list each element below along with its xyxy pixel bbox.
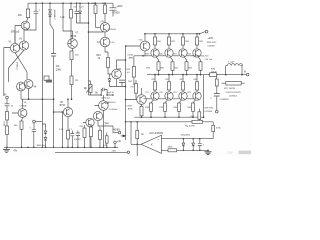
svg-text:(2W): (2W) [56, 69, 61, 71]
potentiometer Rp 5k [89, 85, 92, 93]
resistor R36 10/1W parallel [210, 73, 217, 77]
wire top base bus [134, 55, 194, 57]
transistor V3 [19, 41, 28, 50]
transistor V24 [193, 49, 201, 57]
svg-text:R37: R37 [191, 116, 194, 118]
diode clamp 2 [192, 139, 195, 151]
transistor V23 [193, 92, 201, 100]
svg-text:DIY: DIY [228, 151, 234, 155]
resistor R15 1k [105, 47, 108, 58]
resistor R33 [182, 74, 184, 76]
svg-text:3,3/25V: 3,3/25V [74, 139, 82, 141]
transistor V12 [93, 111, 102, 120]
svg-text:B716: B716 [71, 36, 77, 38]
svg-text:R15: R15 [96, 55, 101, 57]
svg-text:C2120a3: C2120a3 [109, 109, 118, 111]
capacitor 1 (op-amp) [199, 139, 201, 144]
svg-text:6.8/3W: 6.8/3W [208, 46, 216, 48]
zener 5.1V [79, 3, 81, 9]
capacitor 1u 6.3 [101, 88, 104, 95]
resistor R31 [168, 74, 170, 76]
wire x=53.6 with series capacitor [53, 30, 55, 54]
terminal Zobel [216, 110, 219, 113]
resistor 470k [212, 125, 215, 131]
resistor 560 [20, 121, 23, 129]
transistor V4 [17, 82, 26, 91]
svg-text:BT81x3: BT81x3 [11, 31, 20, 34]
resistor R32 [185, 57, 187, 62]
svg-text:0.056/63V: 0.056/63V [220, 99, 230, 101]
wire ground rail bottom [4, 146, 118, 148]
wire -46V bank rail [135, 116, 204, 118]
transistor V14 [99, 101, 109, 111]
resistor 620 (lower) [84, 125, 86, 128]
wire crossing diagonals [9, 50, 28, 82]
transistor V5 [24, 80, 33, 89]
capacitor 47/63V +46V node [112, 3, 114, 8]
diode clamp 1 [182, 139, 185, 151]
ground op-amp [207, 149, 209, 151]
resistor R18 [133, 56, 135, 67]
wire -46V line [55, 151, 127, 153]
svg-text:Ry 1k/2W: Ry 1k/2W [185, 126, 195, 128]
resistor R26 [196, 33, 198, 35]
node box 1k2 [44, 76, 49, 80]
ground symbol left [6, 147, 8, 149]
svg-text:A1943x4: A1943x4 [230, 94, 237, 97]
svg-text:1N4148x2: 1N4148x2 [53, 10, 55, 21]
svg-text:1/2 LF353N: 1/2 LF353N [149, 131, 163, 135]
transistor V22 [179, 49, 187, 57]
svg-text:IN: IN [4, 93, 7, 96]
transistor V17 driver [137, 95, 147, 105]
capacitor 1 (x=36) [35, 3, 37, 11]
resistor 1k (V11) [104, 3, 106, 5]
resistor 2 (lower) [99, 127, 101, 131]
svg-text:10/1W: 10/1W [211, 72, 217, 74]
transistor V16 driver [140, 41, 150, 51]
wire lower pair emitters [21, 88, 54, 99]
transistor V17 [151, 92, 159, 100]
resistor R20 [154, 33, 156, 35]
svg-text:1N4148x2: 1N4148x2 [181, 135, 191, 137]
resistor R17 10/2W [226, 81, 241, 85]
resistor 20k (lower) [90, 124, 92, 127]
terminal +40V [205, 30, 208, 33]
resistor 430k [168, 149, 177, 152]
wire right bus x=125.5 [125, 46, 127, 140]
wire inverting line [161, 149, 168, 151]
svg-text:B716: B716 [60, 105, 66, 107]
svg-text:R29~R35: R29~R35 [204, 108, 214, 110]
svg-text:R20~R27: R20~R27 [207, 42, 217, 44]
resistor R28 [157, 57, 159, 62]
resistor 1k op-amp [136, 130, 139, 138]
resistor R29 [154, 74, 156, 76]
svg-text:C20 1nF: C20 1nF [205, 59, 213, 61]
svg-text:+46V: +46V [117, 5, 123, 8]
resistor R35 [196, 74, 198, 76]
inductor L 1uH [226, 66, 242, 75]
svg-text:0.25/3W: 0.25/3W [204, 111, 212, 113]
resistor R30 [171, 57, 173, 62]
wire bottom base bus [144, 98, 194, 100]
resistor 1,2k (lower) [67, 131, 70, 140]
svg-text:5.1V: 5.1V [79, 6, 84, 8]
svg-text:16V(C)x2: 16V(C)x2 [101, 97, 111, 99]
resistor 220 [72, 48, 73, 51]
capacitor 10u input [6, 99, 8, 104]
wire op-amp output [136, 143, 138, 145]
resistor 100k [6, 120, 8, 126]
transistor V1 [10, 43, 19, 52]
transistor V6 [18, 109, 27, 118]
svg-text:47/63V: 47/63V [113, 13, 121, 15]
wire V7 collector [63, 3, 73, 39]
resistor R34 [179, 100, 182, 103]
wire top +46V rail [28, 2, 113, 4]
svg-text:-46V: -46V [112, 150, 117, 152]
transistor V20 [165, 49, 173, 57]
terminal (0) mid-left [33, 120, 36, 123]
diodes 1N4148x2 (bottom-left) [42, 124, 45, 129]
transistor V10 [86, 118, 94, 126]
transistor V18 [151, 49, 159, 57]
svg-text:M: M [244, 71, 246, 74]
svg-text:C735A: C735A [20, 105, 27, 108]
transistor V13 [100, 37, 110, 47]
zener bias [109, 74, 111, 77]
capacitor 3,3/25V [76, 133, 80, 136]
svg-text:D786x2: D786x2 [16, 62, 18, 70]
svg-text:+40V: +40V [208, 37, 214, 40]
svg-text:1µ(6.3): 1µ(6.3) [107, 92, 114, 94]
transistor V15 [112, 69, 122, 79]
svg-text:C3135: C3135 [127, 54, 134, 56]
transistor V8 [63, 107, 72, 116]
svg-text:L 1µH: L 1µH [228, 61, 234, 63]
resistor Ry 1k/2W [192, 120, 203, 123]
svg-text:V15: V15 [117, 69, 122, 71]
wire lower feed rail [126, 75, 204, 122]
terminal +46 [114, 141, 117, 144]
capacitor 0.1 (top) [76, 3, 78, 11]
resistor 1,2k [70, 3, 72, 9]
resistor input 1k [6, 112, 9, 121]
transistor V19 [165, 92, 173, 100]
resistor driver emitter [140, 106, 143, 116]
wire bias node y=95 [89, 90, 113, 96]
resistor Zobel R [216, 75, 218, 79]
transistor V21 [179, 92, 187, 100]
capacitor 1 (tail) [33, 123, 35, 129]
resistor R36 [193, 100, 196, 103]
resistor 620 (V11 base) [95, 3, 97, 5]
svg-text:V14: V14 [105, 103, 110, 105]
op-amp U1 [141, 135, 161, 153]
resistor 270 [106, 133, 108, 136]
wire node (x=42.4) [41, 3, 43, 147]
wire main vertical bus x=88.5 [88, 3, 90, 95]
svg-text:KF950x1: KF950x1 [108, 29, 117, 31]
terminal M output [246, 73, 249, 76]
wire output node rail [147, 74, 246, 76]
wire op-amp input feed [136, 122, 138, 131]
svg-text:V19,V21,V23,V25: V19,V21,V23,V25 [226, 92, 241, 94]
wire V8 base branch [61, 112, 63, 147]
transistor V11 [100, 23, 109, 32]
transistor V2 [21, 21, 30, 30]
wire V1 V3 collectors [4, 30, 24, 96]
capacitor 47u (VAS) [119, 80, 125, 82]
resistor R24 [182, 33, 184, 35]
wire noninverting line [161, 138, 213, 140]
resistor R22 [168, 33, 170, 35]
transistor V7 [68, 39, 78, 49]
resistor R32 [165, 100, 168, 103]
svg-text:V12: V12 [105, 123, 110, 125]
resistor R37 [198, 109, 200, 112]
diodes 1N4148x2 (top) [49, 3, 51, 8]
wire +40V rail [145, 32, 205, 34]
svg-text:C3225: C3225 [126, 105, 133, 107]
resistor 620 (top-left) [27, 3, 29, 9]
capacitor Zobel C [214, 94, 220, 96]
resistor 220 lower [70, 76, 73, 85]
svg-text:R17 10/2W: R17 10/2W [224, 88, 236, 90]
resistor R34 [199, 57, 201, 62]
resistor R30 [151, 100, 154, 103]
